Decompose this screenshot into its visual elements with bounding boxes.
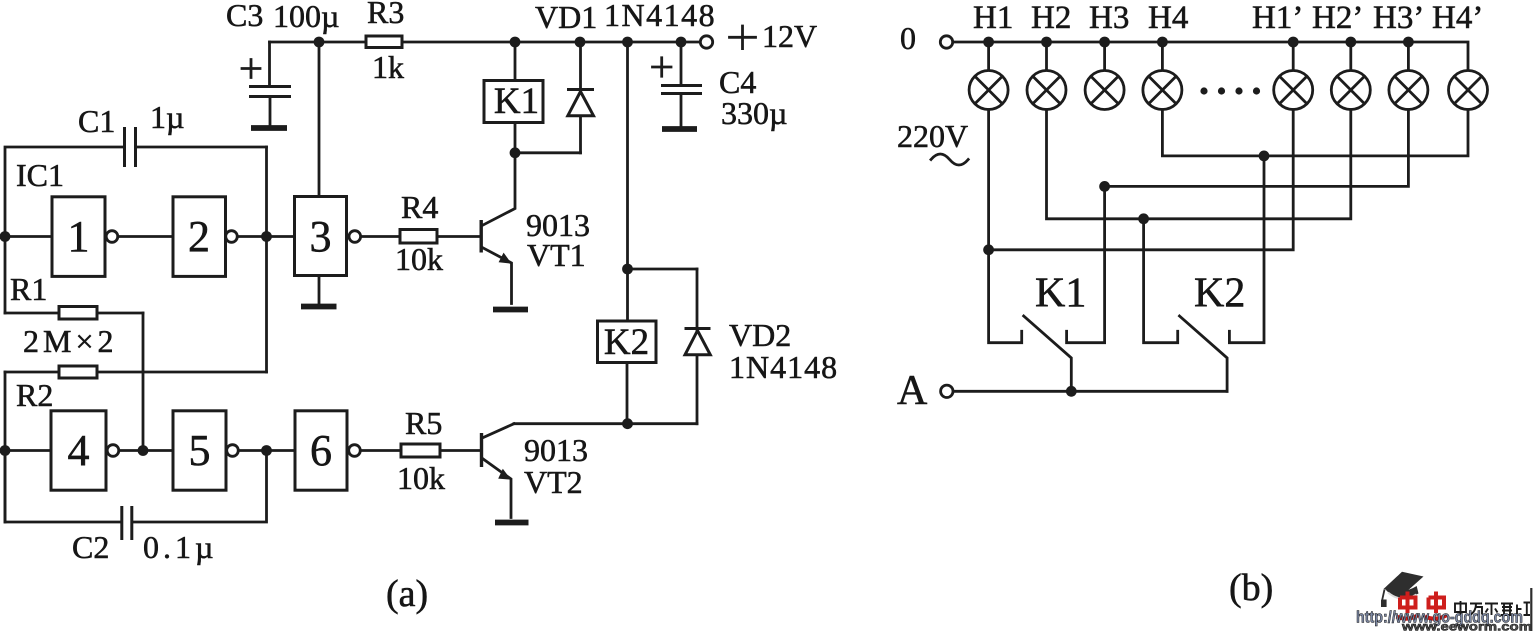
- node gate4 output: [138, 445, 149, 456]
- gate 1: [52, 197, 105, 277]
- wire R5 row: [360, 449, 480, 452]
- bubble gate3: [349, 231, 361, 243]
- resistor R2: [5, 366, 267, 378]
- node rail H4: [1157, 37, 1168, 48]
- watermark chongchong red glyphs: [1397, 592, 1448, 619]
- svg-text:K1: K1: [494, 81, 539, 122]
- resistor R5: [401, 444, 440, 457]
- svg-text:H1: H1: [973, 0, 1013, 36]
- switch K1 pole: [989, 110, 1022, 343]
- wire K2 branch vertical: [626, 42, 629, 321]
- wire C2 bottom loop: [5, 451, 267, 523]
- wire VT1 collector: [483, 153, 516, 226]
- svg-text:H1’: H1’: [1252, 0, 1303, 36]
- svg-text:H2: H2: [1031, 0, 1071, 36]
- wire gate2-gate3: [237, 235, 295, 238]
- wire A line: [954, 390, 1228, 393]
- svg-text:H2’: H2’: [1312, 0, 1363, 36]
- relay K2: [598, 321, 657, 424]
- ac tilde: [931, 154, 968, 165]
- wire H2 to H2p row: [1047, 110, 1351, 219]
- svg-text:10k: 10k: [397, 460, 445, 496]
- node K2 top: [622, 264, 633, 275]
- node gate5 output: [261, 445, 272, 456]
- svg-text:R3: R3: [367, 0, 404, 30]
- ground C3: [251, 125, 287, 131]
- watermark graduation cap: [1381, 572, 1424, 607]
- ground VT2: [495, 520, 529, 526]
- ground VT1: [493, 307, 528, 313]
- node K2 bottom: [622, 418, 633, 429]
- svg-text:9013: 9013: [524, 432, 588, 468]
- wire VT2 collector to VD2: [514, 422, 697, 425]
- node rail H3: [1099, 37, 1110, 48]
- svg-text:VT1: VT1: [527, 237, 586, 273]
- node rail H3': [1403, 37, 1414, 48]
- polarity plus C3: [242, 60, 260, 78]
- lamp H4': [1449, 71, 1488, 110]
- svg-text:1N4148: 1N4148: [729, 349, 838, 385]
- svg-text:C1: C1: [78, 103, 115, 139]
- svg-text:12V: 12V: [762, 18, 817, 54]
- wire R1 to gate4 output node: [142, 313, 145, 451]
- wire gate1-gate2: [118, 235, 173, 238]
- svg-text:5: 5: [189, 426, 211, 475]
- resistor R4: [400, 230, 437, 244]
- svg-text:1: 1: [68, 212, 90, 261]
- node H1 row: [983, 244, 994, 255]
- svg-text:(b): (b): [1229, 567, 1273, 609]
- bubble gate2: [226, 231, 238, 243]
- transistor VT2: [480, 424, 514, 518]
- terminal A: [941, 385, 953, 397]
- svg-text:1N4148: 1N4148: [604, 0, 716, 33]
- gate 4: [51, 411, 106, 490]
- node gate4 input: [0, 445, 10, 456]
- svg-text:100µ: 100µ: [273, 0, 339, 34]
- svg-text:K2: K2: [1194, 271, 1245, 317]
- wire gate5-gate6: [238, 449, 295, 452]
- wire left vertical to C2: [4, 372, 7, 522]
- lamp H2': [1331, 42, 1370, 110]
- capacitor C4: [661, 42, 702, 126]
- switch K2 contact: [1229, 156, 1264, 343]
- svg-text:C3: C3: [226, 0, 263, 33]
- bubble gate6: [349, 445, 361, 457]
- terminal +12V: [700, 36, 712, 48]
- lamp H3': [1389, 42, 1428, 110]
- svg-text:0.1µ: 0.1µ: [143, 529, 217, 565]
- node top rail D: [622, 37, 633, 48]
- lamp H1': [1274, 42, 1313, 110]
- svg-text:6: 6: [310, 426, 332, 475]
- resistor R1: [5, 307, 143, 320]
- wire gate3 top feed: [318, 42, 321, 197]
- ground C4: [662, 126, 697, 132]
- svg-text:K2: K2: [604, 322, 649, 363]
- gate 2: [173, 197, 226, 277]
- svg-text:(a): (a): [386, 573, 428, 615]
- svg-text:H3: H3: [1089, 0, 1129, 36]
- wire gate1 input row: [5, 235, 52, 238]
- capacitor C2: [122, 506, 132, 540]
- svg-text:H3’: H3’: [1373, 0, 1424, 36]
- wire R4 row: [361, 235, 481, 238]
- lamp H4: [1143, 42, 1182, 110]
- wire +12V top rail: [270, 41, 700, 44]
- node top rail B: [510, 37, 521, 48]
- wire H3 to H3p row: [1105, 110, 1409, 187]
- lamp H3: [1085, 42, 1124, 110]
- resistor R3: [366, 36, 402, 48]
- svg-text:VT2: VT2: [524, 464, 583, 500]
- relay K1: [484, 42, 543, 153]
- svg-text:H4’: H4’: [1432, 0, 1483, 36]
- node top rail A: [314, 37, 325, 48]
- node H3 row: [1099, 181, 1110, 192]
- watermark dianzi xiazaizhan glyphs: [1455, 601, 1530, 615]
- diode VD2: [685, 269, 711, 424]
- wire 220V top rail: [953, 42, 1468, 71]
- bubble gate5: [227, 445, 239, 457]
- svg-text:VD2: VD2: [729, 317, 791, 353]
- gate 6: [295, 411, 347, 490]
- ground gate3: [301, 304, 337, 310]
- wire gate4-gate5: [119, 449, 173, 452]
- svg-text:K1: K1: [1035, 271, 1086, 317]
- diode VD1: [567, 42, 594, 153]
- lamp H1: [969, 42, 1008, 110]
- svg-text:IC1: IC1: [16, 157, 64, 193]
- svg-text:R1: R1: [10, 271, 47, 307]
- wire K1 bottom to VD1: [515, 151, 581, 154]
- svg-text:220V: 220V: [897, 118, 968, 154]
- switch K2 pole: [1144, 219, 1178, 343]
- svg-text:1k: 1k: [372, 49, 404, 85]
- svg-text:A: A: [897, 368, 928, 414]
- bubble gate1: [106, 231, 118, 243]
- svg-text:2: 2: [188, 212, 210, 261]
- wire K2top to VD2 top: [628, 268, 698, 271]
- gate 5: [173, 411, 226, 490]
- wire H4 to H4p row: [1162, 110, 1468, 156]
- switch K2 blade: [1180, 316, 1228, 391]
- capacitor C1: [125, 127, 136, 167]
- terminal 0: [940, 36, 952, 48]
- watermark right edge line: [1530, 588, 1532, 631]
- transistor VT1: [480, 220, 512, 304]
- node gate2 output: [261, 231, 272, 242]
- switch K1 contact: [1067, 186, 1105, 342]
- node rail H2': [1345, 37, 1356, 48]
- gate 3: [295, 197, 347, 276]
- svg-text:R5: R5: [405, 405, 442, 441]
- svg-text:C2: C2: [72, 529, 109, 565]
- wire gate3 ground stem: [318, 276, 321, 304]
- node gate1 input: [0, 231, 10, 242]
- node A line: [1066, 386, 1077, 397]
- node rail H2: [1041, 37, 1052, 48]
- node VT1 collector: [510, 147, 521, 158]
- svg-text:1µ: 1µ: [150, 99, 184, 135]
- svg-text:10k: 10k: [395, 241, 443, 277]
- lamp H2: [1027, 42, 1066, 110]
- svg-text:www.eeworm.com: www.eeworm.com: [1401, 622, 1532, 631]
- svg-text:2M×2: 2M×2: [23, 323, 118, 359]
- svg-text:0: 0: [900, 20, 916, 56]
- svg-text:330µ: 330µ: [721, 95, 787, 131]
- svg-text:R4: R4: [401, 189, 438, 225]
- node H2 row: [1138, 213, 1149, 224]
- svg-text:H4: H4: [1148, 0, 1188, 36]
- svg-text:4: 4: [68, 426, 90, 475]
- label +12V: [730, 18, 818, 54]
- capacitor C3: [249, 42, 291, 126]
- polarity plus C4: [653, 58, 672, 76]
- svg-text:3: 3: [310, 212, 332, 261]
- ellipsis dots: [1200, 87, 1260, 94]
- node rail H1: [983, 37, 994, 48]
- wire vertical gate2out to R2: [265, 147, 268, 372]
- node H4 row: [1259, 151, 1270, 162]
- node top rail C: [575, 37, 586, 48]
- wire gate4 input row: [5, 449, 51, 452]
- node top rail E: [676, 37, 687, 48]
- node rail H1': [1288, 37, 1299, 48]
- wire C1 feedback loop: [5, 147, 267, 313]
- svg-text:R2: R2: [16, 377, 53, 413]
- wire H1 to H1p row: [989, 110, 1294, 250]
- svg-text:VD1: VD1: [535, 0, 597, 35]
- bubble gate4: [107, 445, 119, 457]
- switch K1 blade: [1024, 316, 1072, 391]
